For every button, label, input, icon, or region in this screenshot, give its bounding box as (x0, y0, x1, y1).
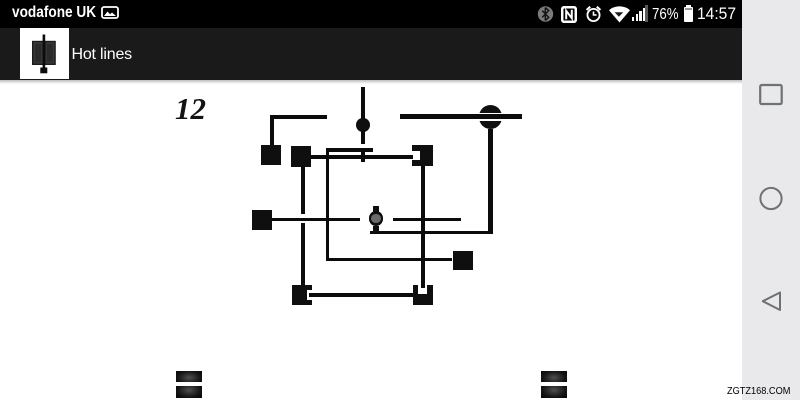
nfc icon (561, 6, 577, 23)
battery percent (652, 6, 679, 24)
alarm clock icon (585, 5, 602, 23)
wire: top-right horizontal through circle (400, 114, 522, 119)
nav home circle (758, 186, 784, 211)
navigation strip (742, 0, 800, 400)
wifi icon (608, 6, 631, 23)
action bar shadow (0, 80, 742, 84)
wire: short stub through line2 (361, 152, 366, 162)
wire: H end inside notch (421, 284, 424, 288)
node: square J with top notch (413, 285, 433, 305)
clock text (697, 5, 736, 24)
wire: line2 horizontal (311, 155, 413, 159)
wire: vertical B long (326, 148, 330, 261)
screenshot notification icon (101, 6, 119, 19)
bluetooth icon (537, 6, 554, 22)
app icon tile (20, 28, 69, 79)
right menu button (541, 371, 567, 383)
wire: horizontal D (326, 258, 453, 262)
level number 12 (175, 91, 206, 127)
nav recents square (758, 83, 784, 107)
wire: horizontal G (370, 231, 493, 234)
wire: vertical H long (421, 166, 424, 288)
wire: horizontal M2 right of lamp (393, 218, 462, 222)
wire: top-left vertical drop (270, 115, 274, 145)
component: middle lamp circle (373, 206, 379, 212)
wire: top vertical feed (361, 87, 365, 119)
node: top-right circle (479, 105, 503, 129)
wire: below top dot (361, 131, 365, 145)
left menu button (176, 371, 203, 382)
app title (72, 46, 132, 64)
node: square I with left notch (412, 145, 433, 167)
wire: vertical A upper (301, 167, 305, 214)
node: square K (291, 146, 312, 167)
action bar (0, 28, 742, 80)
node: square O top-left (261, 145, 282, 166)
content background (0, 80, 742, 400)
wire: vertical A lower (301, 223, 305, 285)
wire: horizontal Q bottom (309, 293, 413, 297)
wire: top-left horizontal (270, 115, 327, 119)
node: square L left (252, 210, 272, 230)
wire: vertical F from circle (488, 129, 493, 235)
wire: horizontal M (272, 218, 360, 222)
nav back triangle (759, 289, 784, 314)
wire: line1 short horizontal (326, 148, 374, 152)
watermark (727, 386, 790, 397)
node: square E (453, 251, 473, 270)
status bar (0, 0, 742, 28)
battery icon (686, 5, 691, 7)
wire: line2 end inside notch (411, 155, 413, 159)
app logo (20, 28, 69, 79)
signal bars (632, 17, 634, 21)
carrier label (12, 4, 96, 22)
node: top junction dot (356, 118, 370, 132)
node: square P with right notch (292, 285, 312, 305)
